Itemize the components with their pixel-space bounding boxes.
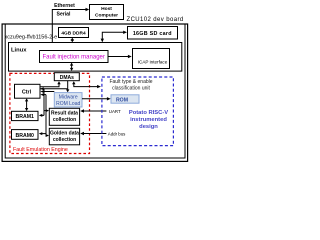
bram1 box: [12, 111, 39, 120]
svg-text:Linux: Linux: [11, 48, 27, 54]
svg-text:Golden data: Golden data: [50, 131, 79, 137]
svg-text:xczu9eg-ffvb1156-2-e: xczu9eg-ffvb1156-2-e: [5, 34, 58, 40]
wire manager-icap arrow: [108, 55, 132, 58]
svg-text:16GB SD card: 16GB SD card: [133, 31, 172, 37]
sd card box: [128, 27, 178, 40]
svg-text:Ethernet: Ethernet: [54, 3, 75, 9]
svg-text:Serial: Serial: [57, 12, 71, 18]
svg-text:ROM: ROM: [116, 97, 128, 103]
svg-text:instrumented: instrumented: [130, 117, 167, 123]
svg-text:ICAP interface: ICAP interface: [138, 59, 168, 64]
wire ctrl-dmas up: [40, 81, 61, 87]
svg-text:DMAs: DMAs: [60, 75, 74, 81]
svg-text:Host: Host: [101, 6, 112, 12]
svg-text:Potato RISC-V: Potato RISC-V: [129, 110, 168, 116]
wire midware-rom arrow: [82, 97, 111, 100]
chip box xczu9eg: [5, 25, 185, 159]
wire manager-dmas double arrow: [70, 63, 73, 71]
svg-text:Fault injection manager: Fault injection manager: [43, 55, 105, 61]
svg-text:BRAM0: BRAM0: [15, 133, 34, 139]
svg-text:BRAM1: BRAM1: [15, 114, 34, 120]
svg-text:classification unit: classification unit: [112, 86, 150, 92]
wire ddr-linux double arrow: [71, 38, 74, 43]
svg-text:Ctrl: Ctrl: [22, 89, 32, 95]
svg-text:ZCU102 dev board: ZCU102 dev board: [127, 17, 184, 23]
wire uart: [80, 109, 121, 114]
bram0 box: [12, 130, 39, 140]
svg-text:UART: UART: [109, 109, 121, 114]
ddr box: [59, 28, 89, 38]
fault injection manager box: [40, 51, 109, 63]
wire ethernet/serial host link: [52, 3, 89, 42]
svg-text:Addr bus: Addr bus: [108, 131, 126, 136]
wire dmas-design double arrow: [72, 81, 101, 88]
wire ctrl-bram1 double arrow: [25, 98, 28, 111]
svg-text:4GB DDR4: 4GB DDR4: [61, 30, 86, 36]
wire bundle A bram1/result: [39, 89, 49, 117]
board box ZCU102: [2, 24, 188, 161]
svg-text:ROM Load: ROM Load: [56, 101, 80, 107]
midware rom load box: [54, 93, 82, 107]
red dashed box fault emulation engine: [10, 73, 90, 153]
svg-text:Fault Emulation Engine: Fault Emulation Engine: [13, 147, 68, 153]
ctrl box: [15, 84, 41, 98]
icap interface box: [133, 49, 170, 69]
wire addr bus: [80, 131, 126, 136]
svg-text:Fault type & enable: Fault type & enable: [109, 79, 152, 85]
golden data collection box: [49, 128, 79, 145]
host computer box: [90, 5, 124, 20]
rom box: [111, 95, 139, 104]
linux box: [9, 43, 182, 72]
wire linux-sdcard L connector: [101, 31, 127, 43]
svg-text:Result data: Result data: [51, 111, 78, 117]
wire dmas-ctrl-midware: [40, 81, 69, 92]
svg-text:collection: collection: [53, 137, 76, 143]
dmas box: [54, 73, 79, 81]
label potato risc-v instrumented design: [129, 110, 168, 130]
svg-text:Midware: Midware: [59, 95, 78, 101]
blue dashed box instrumented design: [102, 77, 173, 146]
svg-text:Computer: Computer: [95, 12, 118, 18]
svg-text:collection: collection: [53, 117, 76, 123]
result data collection box: [49, 108, 79, 125]
wire ctrl-bundleB: [40, 93, 46, 96]
svg-text:design: design: [139, 124, 158, 130]
wire ctrl-midware: [40, 90, 54, 93]
wire bundle B bram0/golden: [39, 95, 49, 137]
